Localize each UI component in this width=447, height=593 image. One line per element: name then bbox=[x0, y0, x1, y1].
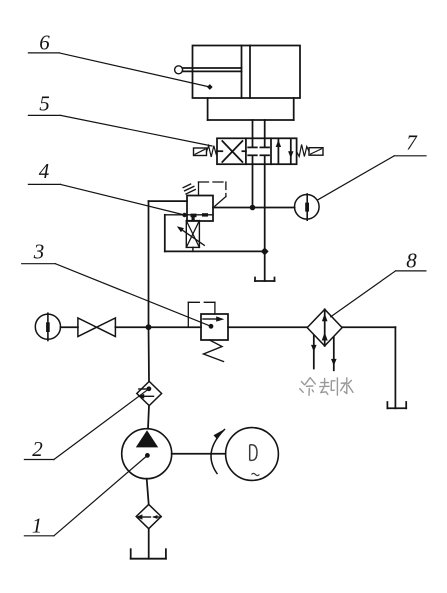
svg-text:3: 3 bbox=[33, 240, 45, 264]
svg-text:6: 6 bbox=[39, 31, 50, 55]
svg-text:4: 4 bbox=[39, 159, 50, 183]
svg-text:1: 1 bbox=[32, 514, 43, 538]
svg-text:7: 7 bbox=[406, 131, 418, 155]
svg-text:5: 5 bbox=[39, 92, 50, 116]
svg-text:8: 8 bbox=[406, 249, 417, 273]
svg-text:2: 2 bbox=[32, 437, 43, 461]
